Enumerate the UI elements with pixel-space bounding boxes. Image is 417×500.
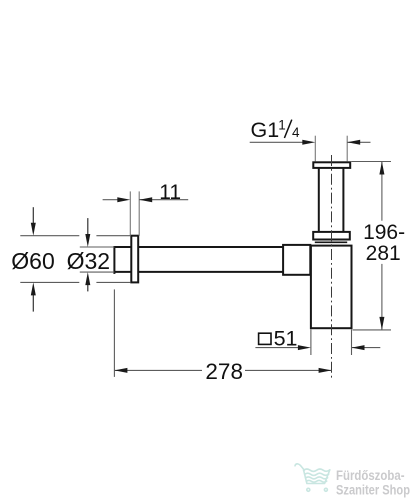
svg-text:Szaniter Shop: Szaniter Shop bbox=[336, 482, 410, 498]
trap body (square cup) bbox=[311, 246, 352, 329]
278 arrows bbox=[114, 368, 331, 373]
vertical tailpiece walls bbox=[319, 168, 344, 231]
196-281 dimension line bbox=[381, 162, 383, 330]
278 extension line bbox=[113, 289, 115, 377]
vertical center line bbox=[331, 155, 333, 378]
tailpiece bottom flange bbox=[313, 232, 350, 240]
diameter 32 arrows bbox=[87, 218, 89, 291]
svg-text:Fürdőszoba-: Fürdőszoba- bbox=[336, 467, 405, 483]
square 51 arrows bbox=[298, 345, 365, 350]
11 dimension extension lines bbox=[130, 191, 139, 236]
wall flange (escutcheon) bbox=[131, 236, 138, 283]
11 arrows bbox=[117, 197, 152, 202]
svg-text:1: 1 bbox=[278, 117, 286, 132]
196-281 label bbox=[363, 221, 405, 265]
196-281 extension lines bbox=[351, 162, 391, 330]
horizontal inlet pipe bbox=[114, 246, 283, 274]
shop logo cart bbox=[295, 464, 330, 491]
shop logo text bbox=[336, 467, 410, 498]
diameter 60 extension lines bbox=[20, 236, 130, 283]
196-281 arrows bbox=[379, 162, 384, 330]
svg-text:11: 11 bbox=[159, 181, 181, 204]
compression nut connector bbox=[283, 245, 310, 275]
svg-text:G1: G1 bbox=[251, 118, 280, 142]
278 dimension line bbox=[114, 369, 331, 371]
G1 1/4 dimension leader bbox=[250, 141, 371, 143]
thin washer under bottom flange bbox=[315, 241, 347, 243]
G1 1/4 extension lines bbox=[315, 136, 347, 162]
svg-text:Ø32: Ø32 bbox=[67, 248, 110, 274]
diameter 32 extension lines bbox=[80, 247, 115, 272]
svg-text:278: 278 bbox=[205, 359, 243, 384]
svg-text:Ø60: Ø60 bbox=[11, 248, 54, 274]
G1 1/4 arrows bbox=[302, 140, 360, 145]
G1 1/4 label bbox=[251, 117, 301, 142]
svg-text:4: 4 bbox=[292, 125, 300, 140]
svg-text:196-: 196- bbox=[363, 221, 405, 244]
11 dimension leader bbox=[103, 199, 189, 201]
square symbol bbox=[259, 333, 271, 344]
square 51 wall extension lines bbox=[311, 329, 352, 355]
svg-text:281: 281 bbox=[366, 242, 401, 265]
svg-text:51: 51 bbox=[274, 326, 298, 350]
diameter 60 arrows bbox=[32, 207, 34, 311]
square 51 dimension leader bbox=[255, 347, 380, 349]
tailpiece top flange bbox=[313, 162, 350, 168]
